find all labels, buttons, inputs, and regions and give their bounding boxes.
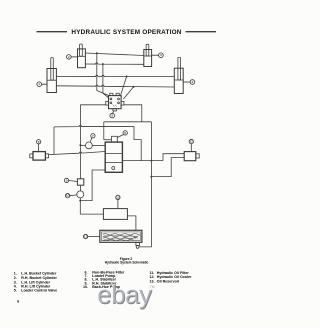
svg-text:4: 4	[192, 80, 194, 84]
svg-text:2: 2	[68, 55, 70, 59]
svg-text:6: 6	[17, 299, 19, 303]
svg-text:ebay: ebay	[97, 280, 152, 310]
svg-text:L.H. Bucket Cylinder: L.H. Bucket Cylinder	[21, 272, 57, 276]
svg-text:10.: 10.	[83, 285, 88, 289]
svg-text:7: 7	[92, 134, 94, 138]
svg-text:12: 12	[116, 195, 120, 199]
svg-text:1: 1	[38, 82, 40, 86]
svg-text:HYDRAULIC SYSTEM OPERATION: HYDRAULIC SYSTEM OPERATION	[71, 29, 181, 36]
svg-text:11: 11	[190, 140, 193, 144]
svg-text:5: 5	[111, 114, 113, 118]
svg-text:Oil Reservoir: Oil Reservoir	[157, 279, 180, 283]
svg-text:13: 13	[84, 235, 88, 239]
svg-text:10: 10	[66, 194, 70, 198]
svg-text:Hydraulic System Schematic: Hydraulic System Schematic	[105, 261, 149, 265]
svg-text:1.: 1.	[14, 272, 17, 276]
svg-text:9: 9	[66, 178, 68, 182]
svg-text:8: 8	[38, 140, 40, 144]
svg-text:5.: 5.	[14, 289, 17, 293]
svg-text:3: 3	[160, 53, 162, 57]
svg-text:Loader Control Valve: Loader Control Valve	[21, 289, 57, 293]
svg-text:6: 6	[124, 131, 126, 135]
svg-text:TM: TM	[150, 285, 155, 289]
